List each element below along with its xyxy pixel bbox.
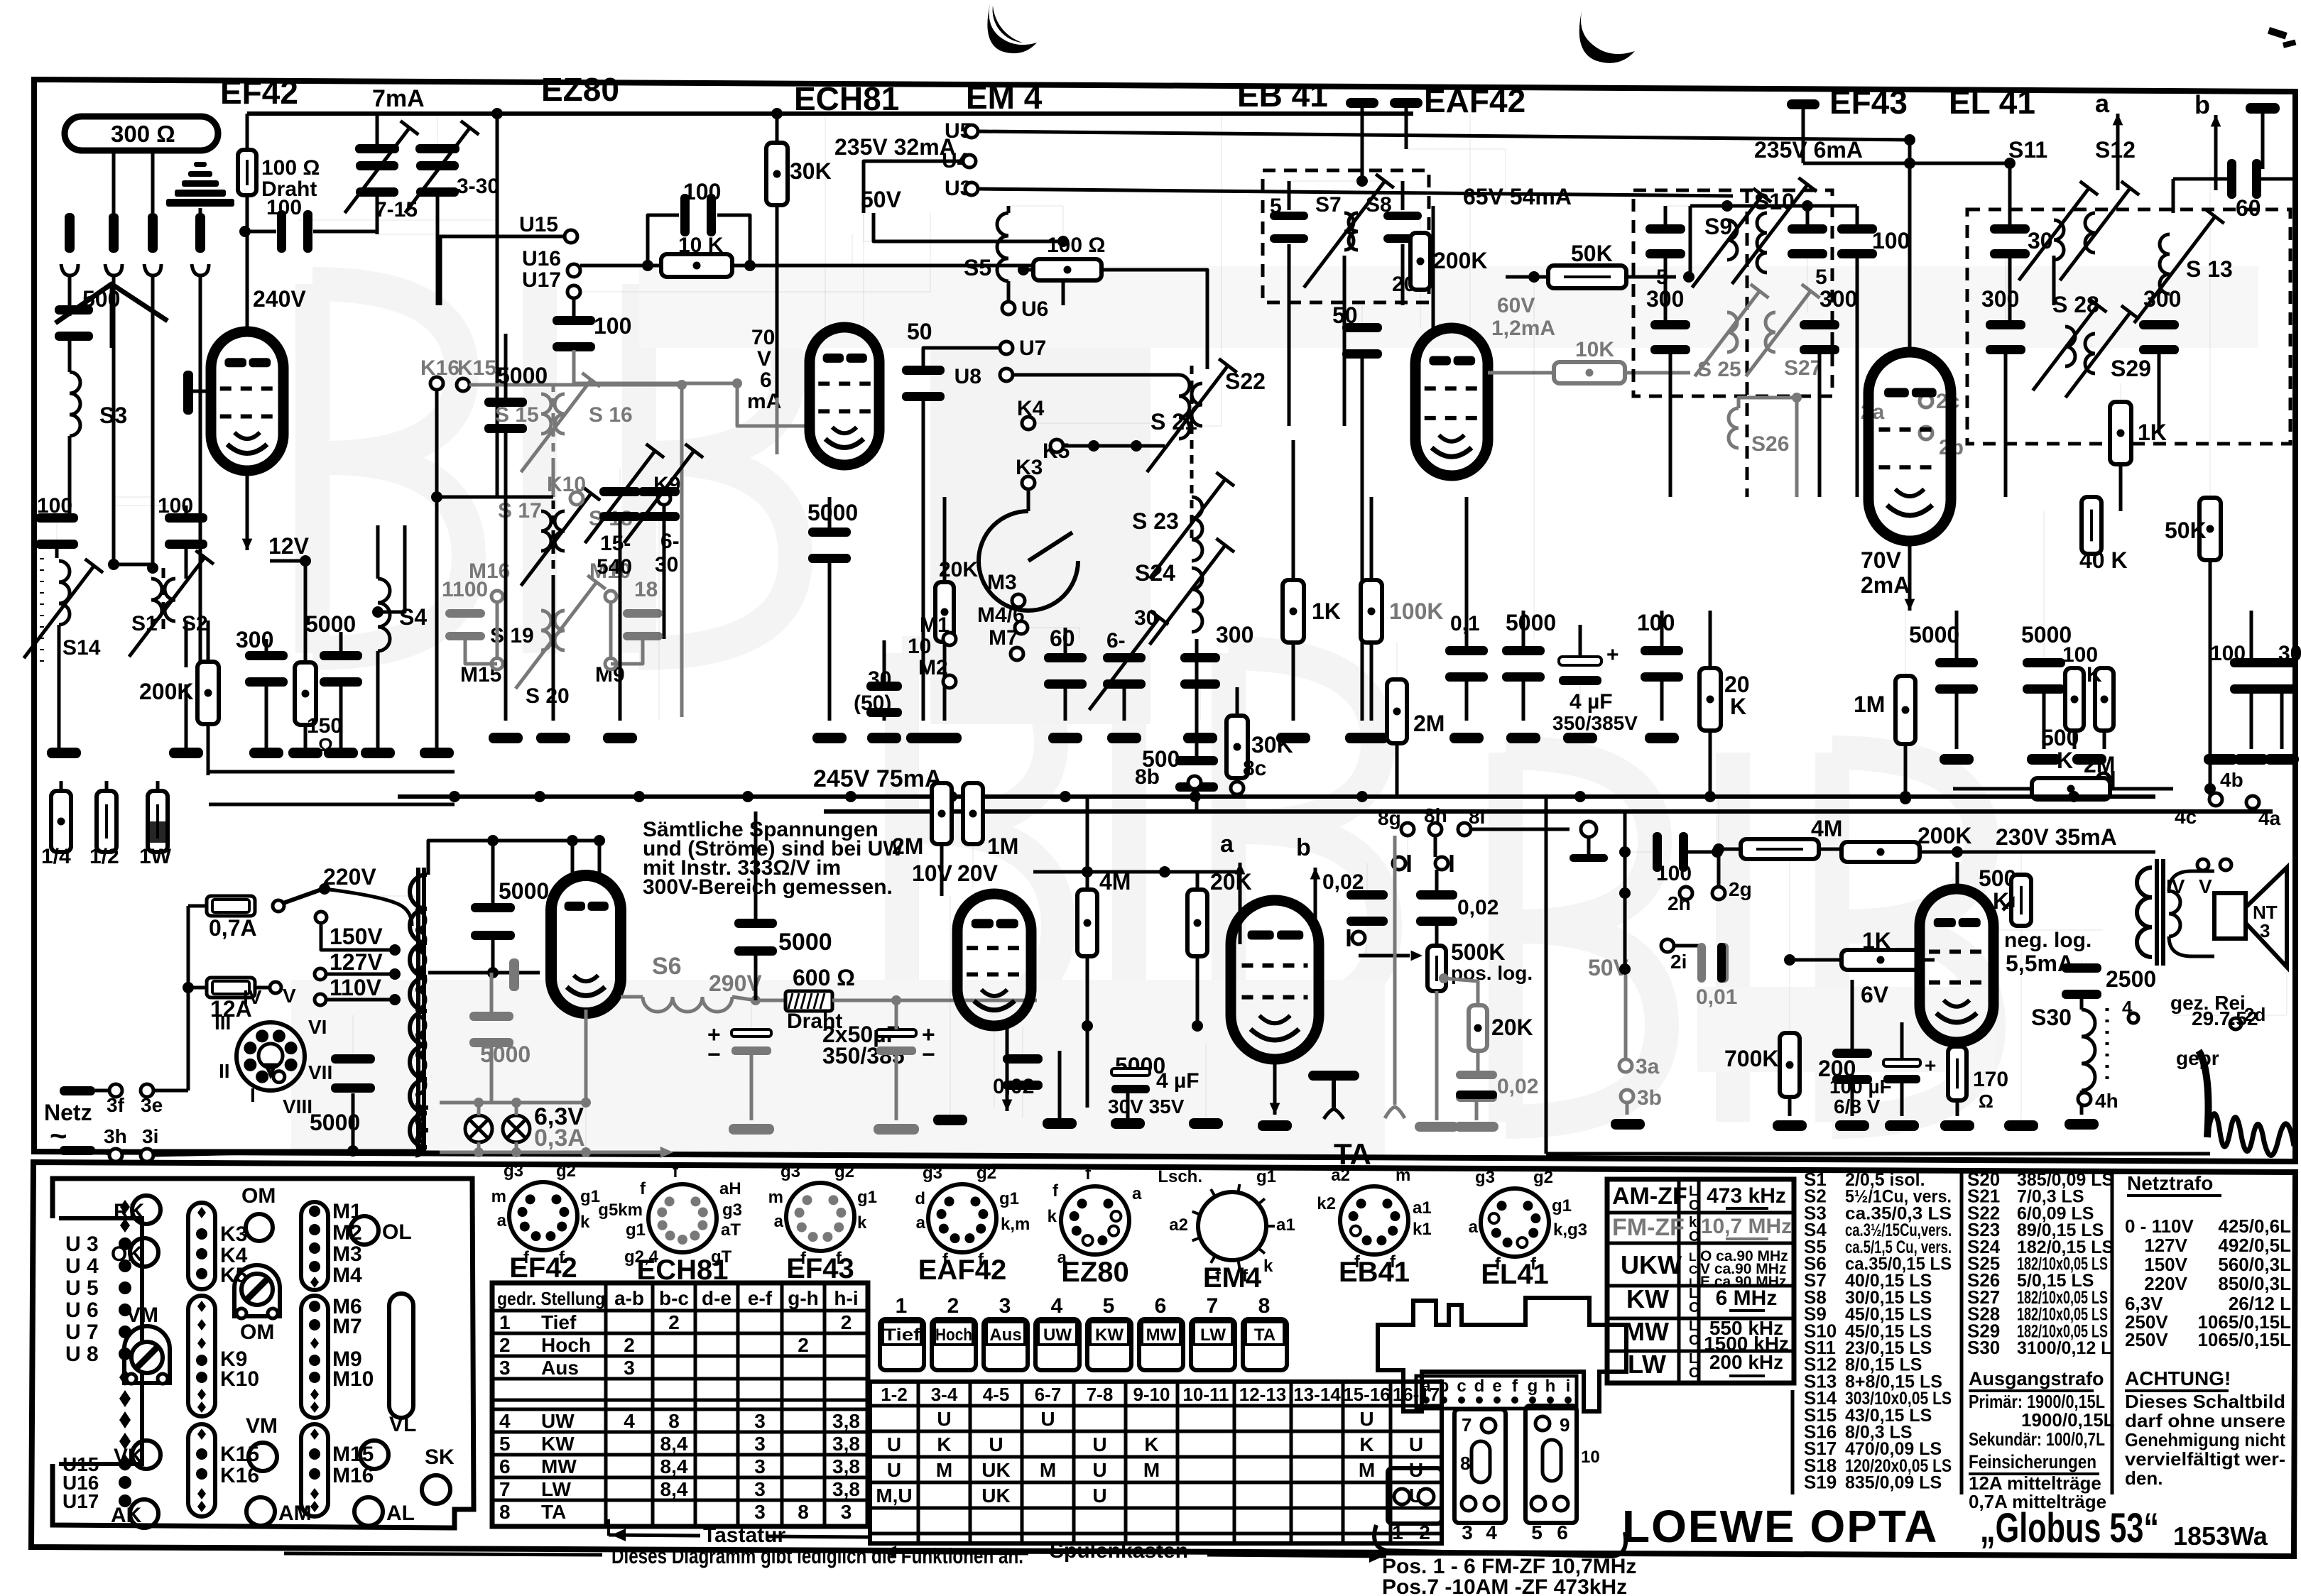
svg-text:40 K: 40 K: [2079, 547, 2128, 573]
svg-text:3: 3: [841, 1501, 852, 1523]
svg-text:K: K: [1993, 888, 2009, 914]
svg-text:−: −: [707, 1042, 721, 1067]
svg-text:3,8: 3,8: [832, 1455, 860, 1477]
svg-text:S14: S14: [62, 636, 101, 660]
svg-text:c: c: [1457, 1377, 1466, 1396]
trimmer cap 7-15: [355, 144, 399, 153]
svg-text:500K: 500K: [1451, 939, 1506, 965]
svg-text:k: k: [857, 1213, 867, 1232]
resistor 4M: [1077, 890, 1097, 956]
svg-text:aH: aH: [719, 1179, 741, 1198]
svg-text:1M: 1M: [987, 833, 1018, 859]
svg-text:1-2: 1-2: [881, 1384, 908, 1405]
svg-text:K: K: [2087, 663, 2102, 687]
svg-text:S11: S11: [2008, 137, 2047, 163]
wire EAF42 top: [1405, 119, 1408, 149]
svg-text:3,8: 3,8: [832, 1410, 860, 1432]
svg-text:2: 2: [798, 1334, 809, 1356]
dashed box EL41 IF: [1967, 209, 2290, 444]
svg-text:U 6: U 6: [65, 1299, 99, 1322]
svg-text:L: L: [1689, 1250, 1696, 1264]
pinout EM4: [1198, 1192, 1266, 1260]
svg-text:500: 500: [2041, 725, 2079, 750]
svg-text:1065/0,15L: 1065/0,15L: [2197, 1329, 2291, 1350]
svg-text:U: U: [1092, 1433, 1106, 1455]
svg-text:C: C: [1689, 1198, 1699, 1213]
svg-text:700K: 700K: [1724, 1046, 1779, 1071]
svg-text:250V: 250V: [2125, 1329, 2168, 1350]
terminal 2d: [2230, 1018, 2241, 1029]
svg-text:M7: M7: [332, 1315, 362, 1338]
svg-text:C: C: [1689, 1365, 1699, 1381]
svg-text:2M: 2M: [892, 833, 923, 859]
svg-text:10,7 MHz: 10,7 MHz: [1701, 1215, 1792, 1238]
svg-text:U15: U15: [519, 213, 558, 236]
wire S1 to ground: [114, 497, 151, 579]
svg-text:L: L: [1689, 1184, 1697, 1199]
tube EF42: [211, 332, 283, 471]
wires em4 grounds: [994, 1027, 995, 1108]
svg-text:M: M: [1040, 1459, 1056, 1481]
svg-text:110V: 110V: [330, 975, 382, 1000]
svg-text:EZ80: EZ80: [1061, 1257, 1129, 1288]
svg-text:200 kHz: 200 kHz: [1709, 1351, 1783, 1373]
svg-text:Aus: Aus: [989, 1326, 1021, 1345]
trimmer VM: [124, 1326, 170, 1383]
svg-text:k1: k1: [1413, 1220, 1432, 1239]
svg-text:5: 5: [1531, 1521, 1543, 1543]
svg-text:a: a: [774, 1212, 784, 1231]
svg-text:50: 50: [907, 319, 932, 344]
svg-text:6-: 6-: [1106, 629, 1126, 652]
svg-text:10: 10: [1581, 1448, 1600, 1467]
svg-text:4: 4: [499, 1410, 511, 1432]
svg-text:8: 8: [1460, 1453, 1470, 1474]
svg-text:OM: OM: [240, 1321, 274, 1344]
svg-text:VIII: VIII: [283, 1095, 312, 1117]
svg-text:2: 2: [841, 1311, 852, 1333]
svg-text:8: 8: [668, 1410, 680, 1432]
svg-text:M3: M3: [332, 1242, 362, 1266]
terminal 2g: [1712, 887, 1725, 900]
svg-text:d: d: [1474, 1377, 1485, 1396]
svg-text:6V: 6V: [1861, 982, 1889, 1007]
svg-text:C: C: [1689, 1300, 1699, 1316]
svg-text:8: 8: [499, 1501, 511, 1523]
svg-text:2g: 2g: [1729, 878, 1752, 900]
resistor 2M vertical: [1387, 679, 1407, 743]
capacitor 30: [1990, 224, 2030, 234]
svg-text:U16: U16: [522, 247, 561, 270]
svg-text:MW: MW: [1146, 1326, 1177, 1345]
svg-text:3-4: 3-4: [931, 1384, 958, 1405]
svg-text:EL41: EL41: [1481, 1259, 1549, 1290]
svg-text:a1: a1: [1413, 1198, 1432, 1218]
svg-text:M: M: [1143, 1459, 1160, 1481]
svg-text:S27: S27: [1784, 356, 1822, 380]
tuning dial: [979, 511, 1078, 611]
bracket: [1374, 1525, 1626, 1556]
svg-text:g-h: g-h: [788, 1287, 819, 1309]
svg-text:8b: 8b: [1135, 765, 1160, 789]
spulenkasten arrow line: [872, 1552, 1028, 1553]
svg-text:AK: AK: [111, 1504, 142, 1527]
svg-text:U 3: U 3: [65, 1232, 99, 1256]
capacitor 0,01 gray: [1697, 943, 1706, 983]
ground bar: [536, 733, 570, 743]
strip K9 K10: [188, 1296, 215, 1416]
coil S3: [70, 372, 80, 436]
svg-text:EF43: EF43: [786, 1253, 854, 1284]
svg-text:835/0,09 LS: 835/0,09 LS: [1845, 1473, 1942, 1493]
heater bottom line arrow: [440, 1151, 660, 1154]
tastatur arrow line: [609, 1535, 700, 1536]
svg-text:70V: 70V: [1861, 547, 1902, 573]
pinout EB41: [1340, 1186, 1408, 1255]
transformer primary winding: [415, 910, 425, 1010]
capacitor 5 S9: [1645, 224, 1685, 234]
wire audio plate rail: [1946, 851, 2155, 854]
svg-text:VL: VL: [389, 1413, 416, 1436]
ground bar: [249, 748, 283, 758]
capacitor 100 audio: [1623, 811, 1627, 969]
terminal 2c: [1920, 395, 1932, 408]
svg-text:3e: 3e: [141, 1094, 163, 1116]
strip M6-M10: [301, 1296, 328, 1418]
svg-text:m: m: [768, 1188, 783, 1207]
svg-text:S 20: S 20: [526, 684, 570, 708]
svg-text:U 8: U 8: [65, 1343, 99, 1366]
svg-text:850/0,3L: 850/0,3L: [2218, 1273, 2291, 1294]
wire HT tap: [428, 971, 540, 975]
coil S29: [2085, 334, 2095, 373]
ground bar gray2: [874, 1124, 919, 1135]
svg-text:4M: 4M: [1811, 816, 1842, 841]
gray wire K15: [469, 383, 682, 387]
svg-text:AM: AM: [278, 1502, 312, 1525]
svg-text:1,2mA: 1,2mA: [1491, 317, 1555, 340]
svg-text:g2: g2: [834, 1162, 854, 1181]
svg-text:Lsch.: Lsch.: [1158, 1167, 1202, 1186]
capacitor 60 top right: [2227, 159, 2236, 199]
svg-text:540: 540: [597, 555, 632, 579]
svg-text:9-10: 9-10: [1133, 1384, 1170, 1405]
pinout EAF42: [928, 1184, 996, 1252]
svg-text:6: 6: [1557, 1521, 1568, 1543]
svg-text:MW: MW: [1623, 1317, 1669, 1346]
ground bar gray: [729, 1124, 774, 1135]
transformer heater winding: [417, 1108, 428, 1153]
resistor 1M: [1895, 676, 1915, 744]
capacitor right: [1383, 212, 1422, 220]
svg-text:U17: U17: [522, 268, 561, 292]
wire EZ80 cathode: [584, 1010, 588, 1103]
svg-text:8: 8: [1258, 1294, 1271, 1318]
terminal 8b wire: [1194, 789, 1195, 797]
svg-text:8,4: 8,4: [660, 1433, 688, 1455]
svg-text:g1: g1: [999, 1189, 1019, 1208]
svg-text:30K: 30K: [790, 158, 832, 184]
svg-text:M2: M2: [918, 656, 948, 679]
tube EAF42: [1415, 328, 1488, 476]
svg-text:EM 4: EM 4: [966, 79, 1043, 116]
svg-text:VI: VI: [308, 1016, 327, 1038]
resistor 170 ohm: [1948, 1046, 1967, 1100]
svg-text:5000: 5000: [778, 929, 832, 956]
svg-text:100K: 100K: [1389, 598, 1444, 624]
svg-text:S30: S30: [2031, 1005, 2072, 1030]
svg-text:U17: U17: [62, 1490, 99, 1512]
svg-text:S 13: S 13: [2186, 256, 2233, 282]
wire EF42 screen: [496, 114, 499, 497]
chassis bar: [2246, 103, 2280, 114]
svg-text:U7: U7: [1019, 337, 1046, 360]
svg-text:MW: MW: [541, 1455, 577, 1477]
svg-text:U 7: U 7: [65, 1321, 99, 1344]
svg-text:5000: 5000: [1506, 610, 1556, 635]
svg-text:k: k: [1263, 1257, 1273, 1276]
svg-text:U: U: [989, 1433, 1003, 1455]
socket VK: [132, 1441, 161, 1469]
svg-text:8i: 8i: [1469, 806, 1485, 828]
electrolytic 2x50 left: [731, 1029, 771, 1037]
svg-text:8: 8: [798, 1501, 809, 1523]
trimmer cap 3-30: [415, 144, 459, 153]
svg-text:EF42: EF42: [509, 1252, 577, 1284]
tube EZ80 rectifier: [551, 875, 621, 1013]
terminal 2b: [1920, 427, 1932, 439]
svg-text:1: 1: [896, 1294, 908, 1318]
socket VL: [360, 1441, 388, 1469]
svg-text:S3: S3: [99, 403, 127, 428]
svg-text:TA: TA: [541, 1501, 566, 1523]
svg-text:V: V: [283, 985, 296, 1007]
svg-text:50K: 50K: [1571, 241, 1613, 266]
svg-text:4c: 4c: [2175, 806, 2197, 828]
IF transformer S21 S22: [1179, 375, 1190, 439]
terminal 150V: [315, 912, 327, 923]
ground bar: [1506, 733, 1540, 743]
pinout EZ80: [1061, 1186, 1129, 1255]
svg-text:3,8: 3,8: [832, 1478, 860, 1500]
ground bar: [1449, 733, 1484, 743]
svg-text:2h: 2h: [1668, 892, 1691, 914]
terminal 4b: [2209, 793, 2222, 806]
svg-text:LW: LW: [541, 1478, 572, 1500]
svg-text:70: 70: [751, 326, 775, 349]
svg-text:10-11: 10-11: [1182, 1384, 1229, 1405]
svg-text:U: U: [887, 1433, 901, 1455]
ground bar 3b: [1611, 1119, 1645, 1130]
svg-text:6: 6: [499, 1455, 511, 1477]
svg-text:50K: 50K: [2165, 518, 2207, 543]
left bus line: [209, 803, 455, 807]
wires S9 block: [1664, 206, 1668, 226]
svg-text:M15: M15: [332, 1443, 374, 1466]
svg-text:UK: UK: [981, 1485, 1010, 1507]
svg-text:U: U: [887, 1459, 901, 1481]
svg-text:7mA: 7mA: [372, 85, 425, 112]
wire ECH81 anode: [825, 114, 826, 332]
svg-text:U8: U8: [954, 365, 981, 388]
svg-text:5000: 5000: [807, 500, 858, 525]
resistor 700K: [1780, 1033, 1800, 1097]
svg-text:4b: 4b: [2220, 769, 2243, 791]
slot: [389, 1294, 413, 1418]
resistor 4M audio: [1741, 839, 1819, 859]
svg-text:0,3A: 0,3A: [534, 1125, 585, 1152]
svg-text:K3: K3: [220, 1223, 247, 1246]
resistor 2M em4: [932, 783, 952, 844]
terminal 3a: [1624, 975, 1628, 1059]
svg-text:4 µF: 4 µF: [1156, 1069, 1200, 1093]
svg-text:b-c: b-c: [659, 1287, 689, 1309]
tube ECH81: [810, 327, 879, 465]
terminal 3h: [60, 1146, 95, 1155]
gray wire S16 down: [552, 461, 555, 497]
terminal 3e: [141, 1084, 153, 1097]
antenna 300 ohm folded dipole box: [65, 116, 218, 151]
svg-text:EAF42: EAF42: [1424, 82, 1525, 119]
svg-text:100 Ω: 100 Ω: [261, 156, 320, 180]
svg-text:0,02: 0,02: [1497, 1075, 1538, 1098]
svg-text:4-5: 4-5: [983, 1384, 1010, 1405]
resistor 1K EAF42: [1283, 580, 1304, 643]
chassis bar: [1346, 98, 1378, 108]
ground bar: [812, 733, 847, 743]
svg-text:Tief: Tief: [883, 1326, 921, 1345]
socket OL: [350, 1216, 379, 1245]
svg-text:L: L: [1689, 1318, 1697, 1334]
ground bar: [603, 733, 637, 743]
svg-text:3: 3: [754, 1433, 766, 1455]
svg-text:f: f: [640, 1179, 646, 1198]
svg-text:300: 300: [2143, 286, 2181, 312]
rail 7mA: [247, 111, 777, 116]
edge speck: [2268, 27, 2288, 40]
svg-text:5: 5: [1103, 1294, 1115, 1318]
svg-text:vervielfältigt wer-: vervielfältigt wer-: [2125, 1448, 2285, 1470]
svg-text:Hoch: Hoch: [541, 1334, 591, 1356]
svg-text:a2: a2: [1331, 1166, 1350, 1185]
svg-text:S30: S30: [1967, 1337, 2000, 1358]
junction dots antenna bus: [108, 559, 119, 570]
svg-text:4: 4: [624, 1410, 635, 1432]
ground bars avc: [1415, 1122, 1459, 1132]
svg-text:M1: M1: [332, 1200, 362, 1223]
svg-text:2M: 2M: [1413, 711, 1445, 736]
svg-text:245V 75mA: 245V 75mA: [813, 765, 942, 792]
module box 9 10: [1525, 1406, 1577, 1523]
svg-text:U: U: [1359, 1408, 1373, 1430]
svg-text:12V: 12V: [268, 533, 310, 559]
switch contact left: [1393, 857, 1405, 870]
resistor 50K right: [2199, 498, 2221, 560]
svg-text:3f: 3f: [107, 1094, 125, 1116]
wire EF42 cathode arrow: [246, 471, 249, 550]
svg-text:Ausgangstrafo: Ausgangstrafo: [1969, 1368, 2104, 1389]
svg-text:240V: 240V: [253, 286, 306, 312]
svg-text:RK: RK: [114, 1200, 145, 1223]
resistor 20K right: [1699, 668, 1721, 731]
svg-text:V: V: [757, 347, 771, 371]
electrolytic 4uF 350/385V: [1559, 657, 1601, 665]
wire antenna downleads: [68, 275, 72, 316]
lamp right: [503, 1115, 530, 1142]
heater top wire: [440, 1101, 586, 1105]
wire 12V: [270, 559, 305, 563]
svg-text:3: 3: [624, 1357, 635, 1379]
svg-text:C: C: [1689, 1263, 1697, 1277]
gray wire 8g fork: [1393, 836, 1397, 1105]
coil S27 gray: [1766, 312, 1775, 352]
ground bars right block: [1940, 754, 1974, 765]
fuse 12A: [207, 978, 255, 997]
svg-text:d: d: [915, 1189, 925, 1208]
resistor 30K: [766, 143, 788, 205]
svg-text:U 4: U 4: [65, 1255, 99, 1278]
svg-text:6 MHz: 6 MHz: [1716, 1286, 1778, 1310]
svg-text:gedr. Stellung: gedr. Stellung: [497, 1288, 605, 1309]
socket RK: [132, 1196, 161, 1224]
svg-text:Pos.7 -10AM -ZF 473kHz: Pos.7 -10AM -ZF 473kHz: [1382, 1575, 1627, 1596]
svg-text:100: 100: [594, 313, 631, 339]
svg-text:1K: 1K: [1862, 928, 1891, 953]
svg-text:UKW: UKW: [1621, 1250, 1682, 1279]
fuse 0,7A: [207, 896, 255, 916]
svg-text:5000: 5000: [305, 611, 356, 637]
svg-text:U: U: [1409, 1433, 1423, 1455]
resistor 100 ohm Draht: [238, 150, 256, 195]
separator line: [1960, 1171, 1964, 1494]
svg-text:3: 3: [754, 1478, 766, 1500]
svg-text:U 5: U 5: [65, 1277, 99, 1300]
resistor 1W: [148, 791, 168, 852]
wire EL41 to output transformer: [1993, 929, 2103, 931]
tube EM4 triode: [957, 894, 1031, 1026]
wire U17 down: [572, 298, 576, 312]
svg-text:0,02: 0,02: [1457, 896, 1498, 919]
wire EL41 anode: [1956, 862, 1959, 889]
wire EF42 anode: [246, 114, 249, 150]
svg-text:2: 2: [499, 1334, 511, 1356]
wire fuse left: [188, 904, 207, 908]
svg-text:g2: g2: [1533, 1168, 1553, 1187]
svg-text:Spulenkasten: Spulenkasten: [1050, 1539, 1188, 1563]
svg-text:5000: 5000: [480, 1042, 531, 1067]
svg-text:300: 300: [1981, 286, 2019, 312]
svg-text:EZ80: EZ80: [541, 71, 619, 108]
svg-text:neg. log.: neg. log.: [2004, 929, 2091, 952]
pinout ECH81: [648, 1184, 717, 1252]
TA antenna symbol: [1332, 1081, 1336, 1109]
svg-text:Dieses Schaltbild: Dieses Schaltbild: [2125, 1391, 2285, 1412]
wire HT top: [428, 841, 605, 875]
wire 200K rail: [208, 770, 455, 774]
svg-text:3: 3: [754, 1410, 766, 1432]
terminal 4a: [2246, 796, 2259, 809]
wire 50V: [874, 213, 1063, 241]
svg-text:2: 2: [668, 1311, 680, 1333]
svg-text:KW: KW: [1626, 1284, 1669, 1313]
resistor 100K pair: [2065, 668, 2084, 731]
svg-text:3-30: 3-30: [457, 175, 499, 198]
svg-text:AL: AL: [386, 1502, 415, 1525]
svg-text:200K: 200K: [1917, 823, 1972, 848]
svg-text:a1: a1: [1276, 1215, 1295, 1235]
trimmer 6-30 mid: [638, 487, 680, 496]
svg-text:100 Ω: 100 Ω: [1047, 234, 1105, 257]
